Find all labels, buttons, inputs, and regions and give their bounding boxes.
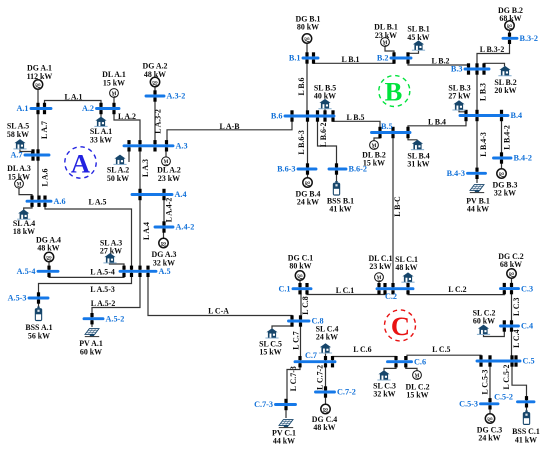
- svg-text:C.5-3: C.5-3: [459, 400, 478, 409]
- svg-text:B.5: B.5: [381, 122, 393, 131]
- svg-text:B.4: B.4: [511, 111, 523, 120]
- svg-text:A.4-2: A.4-2: [176, 223, 195, 232]
- svg-text:24 kW: 24 kW: [316, 333, 338, 342]
- svg-text:60 kW: 60 kW: [473, 317, 495, 326]
- svg-text:A.6: A.6: [54, 197, 66, 206]
- svg-text:L A.7: L A.7: [40, 121, 49, 139]
- svg-text:18 kW: 18 kW: [13, 227, 35, 236]
- svg-text:L C-A: L C-A: [208, 307, 229, 316]
- svg-text:L C.7: L C.7: [292, 331, 301, 349]
- svg-text:L C.1: L C.1: [336, 286, 354, 295]
- svg-text:24 kW: 24 kW: [478, 434, 500, 443]
- svg-text:L B.4-3: L B.4-3: [479, 132, 488, 157]
- svg-text:L C.2: L C.2: [448, 285, 466, 294]
- svg-text:L B.2: L B.2: [432, 56, 450, 65]
- svg-text:A.1: A.1: [16, 104, 28, 113]
- svg-text:C.7: C.7: [305, 351, 317, 360]
- svg-text:L C.3: L C.3: [512, 298, 521, 316]
- svg-text:33 kW: 33 kW: [90, 135, 112, 144]
- svg-text:41 kW: 41 kW: [329, 205, 351, 214]
- svg-text:L C.7-2: L C.7-2: [316, 365, 325, 390]
- svg-text:L B.5: L B.5: [347, 113, 365, 122]
- svg-text:C.5-2: C.5-2: [494, 392, 513, 401]
- svg-text:80 kW: 80 kW: [297, 23, 319, 32]
- svg-text:B.3-2: B.3-2: [520, 34, 538, 43]
- svg-text:15 kW: 15 kW: [406, 391, 428, 400]
- svg-text:L A-B: L A-B: [220, 122, 241, 131]
- svg-text:C.5: C.5: [523, 357, 535, 366]
- svg-text:23 kW: 23 kW: [369, 262, 391, 271]
- svg-text:B.6-3: B.6-3: [277, 165, 295, 174]
- svg-text:A.5-4: A.5-4: [17, 267, 36, 276]
- svg-text:A.5: A.5: [159, 267, 171, 276]
- svg-text:L A.3-2: L A.3-2: [154, 109, 163, 134]
- svg-text:B.6: B.6: [271, 112, 283, 121]
- svg-text:C.7-3: C.7-3: [254, 400, 273, 409]
- svg-text:L A.4-2: L A.4-2: [165, 198, 174, 223]
- svg-text:B.4-3: B.4-3: [447, 169, 465, 178]
- svg-text:A.2: A.2: [82, 104, 94, 113]
- svg-text:L A.2: L A.2: [118, 112, 136, 121]
- svg-text:A.7: A.7: [10, 151, 22, 160]
- svg-text:31 kW: 31 kW: [407, 160, 429, 169]
- svg-text:48 kW: 48 kW: [37, 244, 59, 253]
- svg-text:C: C: [391, 311, 410, 341]
- svg-text:A: A: [71, 148, 90, 178]
- svg-text:L A.5-4: L A.5-4: [90, 268, 115, 277]
- svg-text:L B.1: L B.1: [342, 55, 360, 64]
- svg-text:L B.3-2: L B.3-2: [480, 45, 505, 54]
- svg-text:L B.6-3: L B.6-3: [297, 130, 306, 155]
- svg-text:L A.4: L A.4: [142, 222, 151, 240]
- svg-text:L A.1: L A.1: [65, 92, 83, 101]
- svg-text:L C.7-3: L C.7-3: [289, 366, 298, 391]
- svg-text:60 kW: 60 kW: [80, 347, 102, 356]
- svg-text:80 kW: 80 kW: [289, 262, 311, 271]
- svg-text:44 kW: 44 kW: [467, 205, 489, 214]
- svg-text:B.2: B.2: [377, 54, 389, 63]
- svg-text:L B-C: L B-C: [393, 196, 402, 217]
- svg-text:L B.6: L B.6: [297, 77, 306, 95]
- svg-text:15 kW: 15 kW: [363, 159, 385, 168]
- svg-text:L C.5: L C.5: [432, 345, 450, 354]
- svg-text:68 kW: 68 kW: [500, 260, 522, 269]
- svg-text:50 kW: 50 kW: [107, 174, 129, 183]
- svg-text:23 kW: 23 kW: [158, 174, 180, 183]
- svg-text:L C.5-3: L C.5-3: [481, 369, 490, 394]
- svg-text:L B.4-2: L B.4-2: [503, 125, 512, 150]
- svg-text:A.3: A.3: [176, 142, 188, 151]
- svg-text:41 kW: 41 kW: [515, 435, 537, 444]
- svg-text:L C.5-2: L C.5-2: [502, 364, 511, 389]
- svg-text:32 kW: 32 kW: [373, 390, 395, 399]
- svg-text:B.3: B.3: [451, 65, 463, 74]
- svg-text:C.7-2: C.7-2: [337, 388, 356, 397]
- svg-text:C.3: C.3: [521, 284, 533, 293]
- svg-text:L A.6: L A.6: [40, 168, 49, 186]
- svg-text:L B.6-2: L B.6-2: [319, 122, 328, 147]
- svg-text:C.1: C.1: [278, 284, 290, 293]
- svg-text:20 kW: 20 kW: [494, 86, 516, 95]
- svg-text:A.4: A.4: [175, 190, 187, 199]
- svg-text:L B.4: L B.4: [428, 117, 446, 126]
- svg-text:L C.4: L C.4: [512, 329, 521, 347]
- svg-text:58 kW: 58 kW: [7, 130, 29, 139]
- svg-text:B.1: B.1: [289, 54, 301, 63]
- svg-text:A.5-2: A.5-2: [106, 314, 125, 323]
- svg-text:48 kW: 48 kW: [313, 423, 335, 432]
- svg-text:32 kW: 32 kW: [153, 258, 175, 267]
- svg-text:44 kW: 44 kW: [273, 437, 295, 446]
- svg-text:C.6: C.6: [414, 357, 426, 366]
- svg-text:L C.8: L C.8: [301, 296, 310, 314]
- svg-text:L A.5: L A.5: [89, 197, 107, 206]
- svg-text:L A.3: L A.3: [141, 159, 150, 177]
- svg-text:24 kW: 24 kW: [297, 198, 319, 207]
- svg-text:C.4: C.4: [521, 322, 533, 331]
- svg-text:L B.3: L B.3: [478, 83, 487, 101]
- svg-text:32 kW: 32 kW: [494, 189, 516, 198]
- svg-text:B: B: [385, 76, 403, 106]
- svg-text:L C.6: L C.6: [353, 345, 371, 354]
- svg-text:A.5-3: A.5-3: [8, 294, 27, 303]
- svg-text:L A.5-3: L A.5-3: [90, 285, 115, 294]
- svg-text:B.4-2: B.4-2: [514, 154, 532, 163]
- svg-text:L A.5-2: L A.5-2: [91, 299, 116, 308]
- svg-text:C.2: C.2: [385, 292, 397, 301]
- svg-text:27 kW: 27 kW: [448, 92, 470, 101]
- svg-text:15 kW: 15 kW: [103, 78, 125, 87]
- svg-text:48 kW: 48 kW: [395, 263, 417, 272]
- svg-text:56 kW: 56 kW: [28, 331, 50, 340]
- svg-text:A.3-2: A.3-2: [167, 92, 186, 101]
- svg-text:15 kW: 15 kW: [259, 348, 281, 357]
